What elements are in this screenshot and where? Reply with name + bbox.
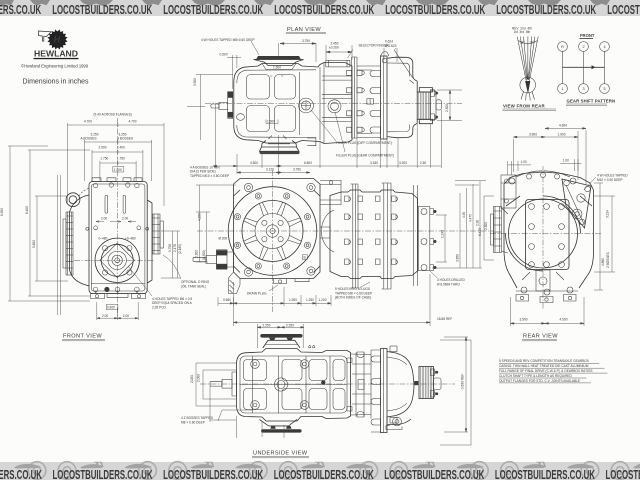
svg-text:2.176: 2.176 — [173, 244, 177, 252]
svg-text:6.800: 6.800 — [304, 161, 312, 165]
svg-text:4.90: 4.90 — [462, 212, 466, 218]
svg-text:2.00: 2.00 — [122, 217, 128, 221]
svg-text:3.650: 3.650 — [456, 254, 460, 262]
svg-text:DRAIN PLUG: DRAIN PLUG — [247, 291, 267, 295]
svg-text:LOCOSTBUILDERS.CO.UK: LOCOSTBUILDERS.CO.UK — [0, 467, 42, 480]
svg-text:CASING: THIN WALL HEAT TREATED: CASING: THIN WALL HEAT TREATED DIE CAST … — [499, 364, 589, 368]
svg-text:1.00: 1.00 — [521, 160, 527, 164]
svg-text:0.500: 0.500 — [220, 52, 228, 56]
svg-text:LOCOSTBUILDERS.CO.UK: LOCOSTBUILDERS.CO.UK — [274, 467, 374, 480]
svg-text:4.700: 4.700 — [129, 119, 137, 123]
svg-text:6.900: 6.900 — [0, 208, 4, 216]
svg-text:2 BOSSES: 2 BOSSES — [606, 252, 610, 268]
svg-text:4: 4 — [603, 45, 605, 49]
svg-text:1: 1 — [561, 87, 563, 91]
svg-text:LOCOSTBUILDERS.CO.UK: LOCOSTBUILDERS.CO.UK — [496, 2, 596, 17]
svg-text:OUTPUT FLANGES FOR STD. C.V. J: OUTPUT FLANGES FOR STD. C.V. JOINTS AVAI… — [499, 379, 580, 383]
svg-text:LOCOSTBUILDERS.CO.UK: LOCOSTBUILDERS.CO.UK — [163, 2, 263, 17]
svg-text:H: H — [54, 35, 61, 45]
svg-text:1.900: 1.900 — [289, 298, 297, 302]
svg-text:4.475: 4.475 — [469, 214, 473, 222]
svg-text:M8 × 0.60 DEEP: M8 × 0.60 DEEP — [181, 421, 205, 425]
svg-text:2.400: 2.400 — [117, 145, 125, 149]
svg-text:1.750: 1.750 — [100, 156, 108, 160]
svg-text:Ø 0.623: Ø 0.623 — [385, 44, 397, 48]
svg-text:(2.185): (2.185) — [178, 244, 182, 254]
svg-text:5.600: 5.600 — [32, 240, 36, 248]
svg-text:FILLER PLUG (GEAR COMPARTMENT): FILLER PLUG (GEAR COMPARTMENT) — [336, 153, 394, 157]
svg-text:Ø 200: Ø 200 — [219, 237, 228, 241]
svg-text:FRONT: FRONT — [580, 33, 595, 38]
svg-text:1.900: 1.900 — [114, 168, 122, 172]
svg-text:LOCOSTBUILDERS.CO.UK: LOCOSTBUILDERS.CO.UK — [274, 2, 374, 17]
svg-text:5: 5 — [603, 87, 605, 91]
svg-text:FRONT VIEW: FRONT VIEW — [63, 334, 102, 340]
svg-text:4.880: 4.880 — [601, 258, 605, 266]
svg-text:M10 × 0.90 DEEP: M10 × 0.90 DEEP — [597, 178, 623, 182]
svg-text:3.900: 3.900 — [529, 133, 537, 137]
svg-text:3.500: 3.500 — [520, 318, 528, 322]
svg-text:LOCOSTBUILDERS.CO.UK: LOCOSTBUILDERS.CO.UK — [53, 467, 153, 480]
svg-text:4.690: 4.690 — [559, 124, 567, 128]
svg-text:(BOTH SIDES OF CASE): (BOTH SIDES OF CASE) — [335, 296, 371, 300]
svg-text:2.250: 2.250 — [263, 324, 271, 328]
svg-text:4 W HOLES TAPPED: 4 W HOLES TAPPED — [597, 173, 628, 177]
svg-text:2.000: 2.000 — [190, 375, 194, 383]
svg-text:3: 3 — [582, 87, 584, 91]
svg-text:6.400: 6.400 — [25, 206, 29, 214]
svg-text:©Hewland Engineering Limited 1: ©Hewland Engineering Limited 1999 — [21, 63, 89, 68]
svg-text:UNDERSIDE VIEW: UNDERSIDE VIEW — [253, 451, 308, 457]
svg-text:4.500: 4.500 — [250, 161, 258, 165]
svg-text:LOCOSTBUILDERS.CO.UK: LOCOSTBUILDERS.CO.UK — [384, 467, 484, 480]
svg-text:1.245: 1.245 — [441, 230, 445, 238]
svg-text:3.750: 3.750 — [293, 168, 301, 172]
svg-text:2.90: 2.90 — [476, 220, 480, 226]
svg-text:(1.900): (1.900) — [202, 250, 206, 260]
svg-text:3.500: 3.500 — [193, 78, 197, 86]
svg-text:4.500: 4.500 — [560, 318, 568, 322]
svg-text:3.750: 3.750 — [302, 39, 310, 43]
svg-text:4.250: 4.250 — [198, 213, 202, 221]
svg-text:FILLER PLUG (DIFF COMPARTMENT): FILLER PLUG (DIFF COMPARTMENT) — [336, 141, 392, 145]
svg-text:3.180: 3.180 — [370, 161, 378, 165]
svg-text:DEEP EQUI-SPACED ON A: DEEP EQUI-SPACED ON A — [152, 301, 193, 305]
svg-text:1.750: 1.750 — [117, 156, 125, 160]
svg-text:FULL RANGE OF FINAL DRIVE (C.W: FULL RANGE OF FINAL DRIVE (C.W & P.) & G… — [499, 369, 593, 373]
svg-text:(9.40 ACROSS FLANGES): (9.40 ACROSS FLANGES) — [94, 113, 132, 117]
svg-text:LOCOSTBUILDERS.CO.UK: LOCOSTBUILDERS.CO.UK — [495, 467, 595, 480]
svg-text:HEWLAND: HEWLAND — [34, 50, 78, 59]
svg-text:B: B — [304, 256, 306, 260]
svg-text:1.500: 1.500 — [273, 66, 281, 70]
svg-text:2.00: 2.00 — [101, 217, 107, 221]
svg-text:2.50: 2.50 — [420, 161, 426, 165]
svg-text:2.00: 2.00 — [102, 314, 108, 318]
svg-text:LOCOSTBUILDERS.CO.UK: LOCOSTBUILDERS.CO.UK — [0, 2, 42, 17]
svg-text:REAR VIEW: REAR VIEW — [523, 334, 558, 340]
svg-text:4 HOLES TAPPED M6 × 0.5: 4 HOLES TAPPED M6 × 0.5 — [152, 297, 192, 301]
svg-text:1.250: 1.250 — [306, 298, 314, 302]
svg-text:1.00: 1.00 — [563, 159, 569, 163]
svg-text:3.214: 3.214 — [606, 210, 610, 218]
svg-text:2.500: 2.500 — [99, 145, 107, 149]
svg-text:GEAR SHIFT PATTERN: GEAR SHIFT PATTERN — [567, 99, 616, 104]
svg-text:LOCOSTBUILDERS.CO.UK: LOCOSTBUILDERS.CO.UK — [607, 2, 640, 17]
svg-text:0.650: 0.650 — [223, 298, 231, 302]
svg-text:1.200: 1.200 — [319, 298, 327, 302]
svg-text:2.300: 2.300 — [484, 222, 488, 230]
svg-text:3.200: 3.200 — [399, 161, 407, 165]
svg-text:+0–480: +0–480 — [125, 237, 136, 241]
svg-text:1.900: 1.900 — [558, 133, 566, 137]
svg-text:2.35 PCD: 2.35 PCD — [152, 306, 167, 310]
svg-text:12°: 12° — [520, 41, 526, 45]
svg-text:R: R — [561, 45, 564, 49]
svg-text:3.120: 3.120 — [266, 168, 274, 172]
svg-text:A BOSSES: A BOSSES — [81, 136, 97, 140]
svg-text:OPTIONAL O RING: OPTIONAL O RING — [181, 280, 210, 284]
svg-text:LOCOSTBUILDERS.CO.UK: LOCOSTBUILDERS.CO.UK — [385, 2, 485, 17]
svg-text:9.756: 9.756 — [168, 244, 172, 252]
svg-text:5 SPEEDS AND REV COMPETITION T: 5 SPEEDS AND REV COMPETITION TRANSAXLE G… — [499, 359, 590, 363]
svg-text:2: 2 — [582, 45, 584, 49]
svg-text:4.700: 4.700 — [84, 119, 92, 123]
svg-text:PLAN VIEW: PLAN VIEW — [287, 27, 321, 33]
svg-text:2.300: 2.300 — [445, 104, 449, 112]
svg-text:LOCOSTBUILDERS.CO.UK: LOCOSTBUILDERS.CO.UK — [606, 467, 640, 480]
svg-text:0–480: 0–480 — [99, 237, 108, 241]
svg-text:0.900: 0.900 — [107, 306, 115, 310]
svg-text:9.630 REF: 9.630 REF — [461, 374, 465, 389]
svg-text:2.00: 2.00 — [123, 314, 129, 318]
svg-text:(OIL TANK SEAL): (OIL TANK SEAL) — [181, 285, 206, 289]
svg-text:Dimensions in inches: Dimensions in inches — [23, 77, 89, 86]
svg-text:VIEW FROM REAR: VIEW FROM REAR — [503, 104, 545, 109]
svg-text:12°: 12° — [529, 41, 535, 45]
svg-text:2.300: 2.300 — [195, 250, 199, 258]
svg-text:18.88 REF: 18.88 REF — [437, 317, 452, 321]
svg-text:2.250: 2.250 — [286, 324, 294, 328]
svg-text:CLUTCH SHAFT TYPE & LENGTH AS: CLUTCH SHAFT TYPE & LENGTH AS REQUIRED — [499, 374, 573, 378]
svg-text:LOCOSTBUILDERS.CO.UK: LOCOSTBUILDERS.CO.UK — [163, 467, 263, 480]
svg-text:A BOSSES: A BOSSES — [117, 136, 133, 140]
svg-text:1st 3rd 5th: 1st 3rd 5th — [514, 30, 531, 34]
svg-text:0.624: 0.624 — [385, 40, 393, 44]
svg-text:TAPPED M10 × 0.80 DEEP: TAPPED M10 × 0.80 DEEP — [190, 174, 229, 178]
svg-text:LOCOSTBUILDERS.CO.UK: LOCOSTBUILDERS.CO.UK — [52, 2, 152, 17]
svg-text:2.000: 2.000 — [197, 374, 201, 382]
svg-text:1.500: 1.500 — [267, 119, 275, 123]
svg-text:Ø 8.5MM THRO: Ø 8.5MM THRO — [437, 282, 460, 286]
svg-text:4 Z BOSSES TAPPED: 4 Z BOSSES TAPPED — [181, 416, 214, 420]
svg-text:±0.260: ±0.260 — [329, 46, 339, 50]
svg-text:4 W HOLES TAPPED M8×0.60 DEEP: 4 W HOLES TAPPED M8×0.60 DEEP — [201, 38, 255, 42]
